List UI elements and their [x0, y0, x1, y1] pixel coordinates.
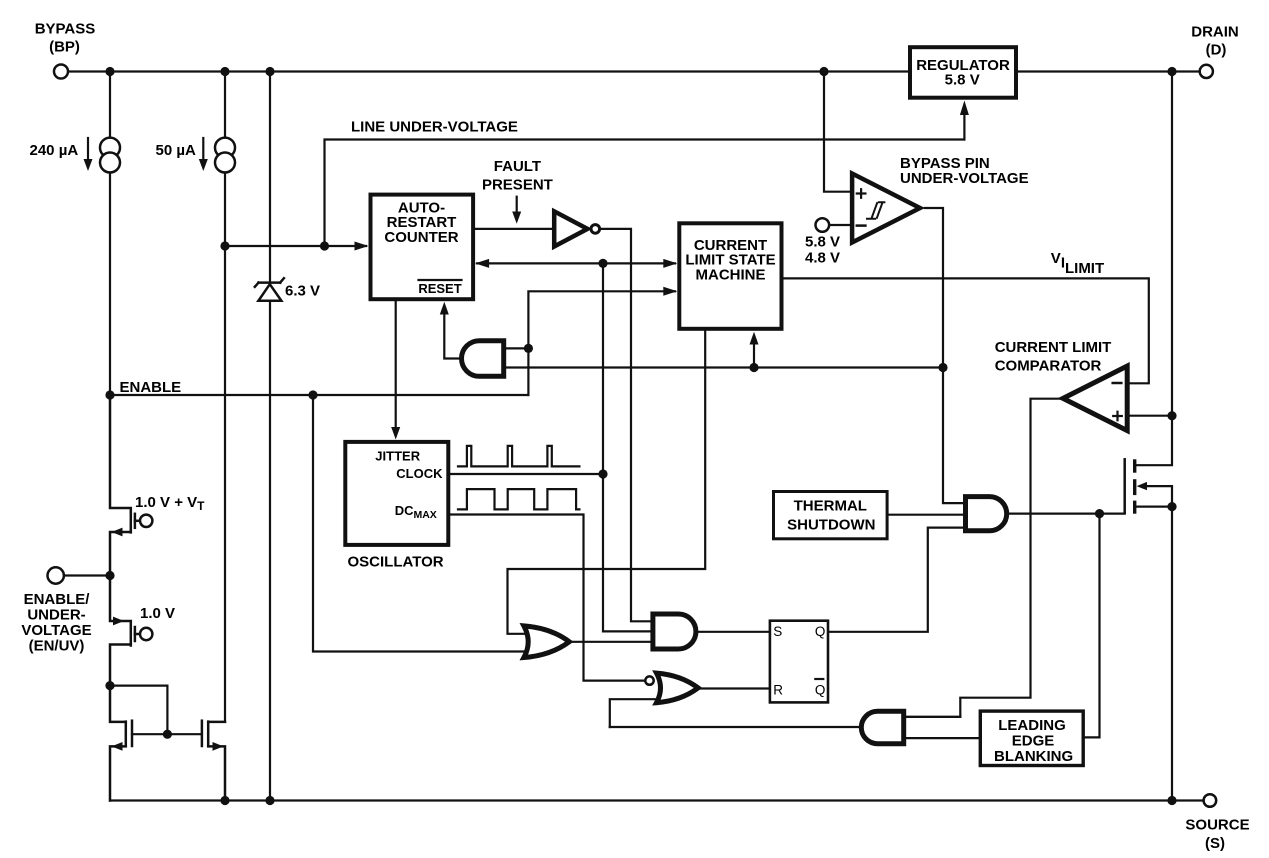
transistor Q2 (upper sense FET) — [110, 395, 152, 576]
wire: inverter output down to AND3 — [600, 229, 651, 621]
transistor Q5 (mirror right) — [202, 721, 225, 801]
node: top bus junction at 240uA branch — [105, 67, 114, 76]
BYPASS pin terminal — [54, 65, 68, 79]
wire: U7 output to latch S — [698, 631, 768, 633]
wire: bottom source bus — [110, 799, 1205, 801]
svg-text:COUNTER: COUNTER — [384, 229, 458, 246]
wire: zener branch upper segment — [269, 72, 271, 282]
svg-text:FAULT: FAULT — [494, 158, 541, 175]
node: source-body junction — [1167, 502, 1176, 511]
node: mirror gate junction — [163, 730, 172, 739]
node: junction on ARC-CLSM wire — [598, 259, 607, 268]
arrow: 50uA direction — [202, 138, 204, 162]
svg-text:PRESENT: PRESENT — [482, 177, 553, 194]
svg-text:4.8 V: 4.8 V — [805, 249, 840, 266]
svg-text:CLOCK: CLOCK — [396, 466, 443, 481]
SR latch U9 box — [770, 621, 828, 703]
U12 plus sign — [1113, 412, 1122, 421]
arrow: into CLSM left side lower — [663, 287, 677, 296]
svg-text:SOURCE: SOURCE — [1185, 817, 1249, 834]
wire: Q1 source — [1136, 506, 1172, 508]
arrow: ARC to oscillator — [395, 301, 397, 431]
wire: clock output — [450, 473, 603, 475]
svg-text:(D): (D) — [1206, 41, 1227, 58]
block U16 LEADING EDGE BLANKING box — [980, 711, 1083, 765]
node: bottom bus junction at 50uA branch — [220, 796, 229, 805]
wire: U8 output to latch R — [700, 687, 768, 689]
node: mirror feed junction — [105, 681, 114, 690]
U11 minus sign — [857, 224, 866, 227]
svg-text:THERMAL: THERMAL — [794, 498, 867, 515]
svg-text:6.3 V: 6.3 V — [285, 283, 320, 300]
wire: 50uA branch down to current mirror — [224, 173, 226, 722]
wire: line under-voltage riser into regulator — [963, 108, 965, 140]
wire: reference terminal to U11 minus input — [829, 224, 850, 226]
block U3 CURRENT LIMIT STATE MACHINE box — [679, 223, 781, 328]
wire: top bus from REGULATOR to DRAIN — [1018, 70, 1200, 72]
U12 minus sign — [1113, 382, 1122, 385]
wire: U4 upper input stub to enable net — [506, 347, 528, 349]
ENABLE/UNDER-VOLTAGE terminal — [48, 567, 64, 583]
arrow: into CLSM left side upper — [663, 259, 677, 268]
node: junction gate drive to LEB feed — [1095, 509, 1104, 518]
svg-text:50 µA: 50 µA — [156, 142, 196, 159]
Q5 source arrow — [213, 742, 224, 751]
wire: U12 output down-around to LEB AND gate — [906, 399, 1060, 717]
node: EN/UV junction — [105, 571, 114, 580]
wire: top bus to bypass comparator plus input — [824, 72, 850, 192]
svg-text:1.0 V: 1.0 V — [140, 605, 175, 622]
svg-text:RESET: RESET — [418, 281, 461, 296]
svg-text:BLANKING: BLANKING — [994, 748, 1073, 765]
zener diode VR1 6.3V — [255, 278, 284, 301]
inverter U2 triangle — [554, 211, 587, 246]
wire: line under-voltage horizontal — [325, 140, 965, 247]
DRAIN pin terminal — [1200, 65, 1213, 78]
svg-text:SHUTDOWN: SHUTDOWN — [787, 517, 875, 534]
transistor Q3 (lower sense FET) — [110, 576, 152, 686]
wire: enable branch down to OR gate — [313, 395, 526, 652]
AND gate U7 (set logic) — [653, 614, 696, 649]
Q3 source arrow — [113, 617, 124, 626]
U9 Q-bar overline — [815, 678, 823, 680]
current source I2 50uA symbol — [224, 72, 226, 138]
U1 RESET overline — [419, 279, 462, 281]
node: junction on 50uA branch — [220, 241, 229, 250]
svg-text:UNDER-: UNDER- — [27, 607, 85, 624]
block U1 AUTO-RESTART COUNTER box — [371, 195, 474, 300]
wire: Q1 drain to top bus — [1136, 72, 1172, 466]
wire: latch Q output up to AND4 — [829, 528, 963, 632]
transistor Q4 (mirror left) — [110, 686, 132, 801]
Q1 channel bar body — [1133, 479, 1136, 495]
node: junction at drain-source sense line — [1167, 411, 1176, 420]
wire: clock net vertical — [603, 263, 651, 631]
AND gate U15 (blanking, faces left) — [861, 711, 903, 743]
U11 hysteresis symbol — [866, 202, 885, 219]
svg-text:ENABLE/: ENABLE/ — [24, 591, 91, 608]
wire: 50uA node to auto-restart counter input — [225, 245, 366, 247]
arrow: fault present into wire — [516, 197, 518, 212]
wire: AND1 output to RESET input — [444, 310, 459, 359]
wire: U4 lower input from bypass UV net — [506, 366, 943, 368]
svg-text:(BP): (BP) — [49, 39, 80, 56]
wire: source down to bottom bus — [1171, 507, 1173, 801]
arrow: into ARC RESET — [440, 302, 449, 315]
wire: Q1 body to source — [1146, 486, 1172, 507]
node: enable junction at 240uA branch — [105, 390, 114, 399]
node: top bus junction at zener branch — [265, 67, 274, 76]
wire: U15 upper input stub — [906, 716, 960, 718]
wire: zener branch lower segment to bottom bus — [269, 301, 271, 801]
comparator U12 current limit triangle (faces left) — [1063, 366, 1127, 431]
power MOSFET Q1 gate electrode — [1123, 459, 1126, 513]
wire: EN/UV terminal to stack — [64, 574, 110, 576]
wire: V I-limit from CLSM to current limit comparator — [784, 278, 1149, 383]
svg-text:COMPARATOR: COMPARATOR — [995, 357, 1102, 374]
svg-text:1.0 V + VT: 1.0 V + VT — [135, 494, 205, 513]
svg-text:CURRENT LIMIT: CURRENT LIMIT — [995, 339, 1112, 356]
svg-text:LINE UNDER-VOLTAGE: LINE UNDER-VOLTAGE — [351, 119, 518, 136]
node: junction bypass UV net — [938, 363, 947, 372]
block U13 THERMAL SHUTDOWN box — [774, 492, 888, 539]
svg-text:(S): (S) — [1205, 835, 1225, 852]
wire: dcmax output — [450, 515, 645, 681]
wire: mirror gate feed — [110, 686, 167, 735]
Q4 source arrow — [112, 742, 123, 751]
wire: U15 lower input from LEB — [906, 737, 978, 739]
NOR gate U8 (reset of latch) with bubble — [645, 676, 653, 684]
wire: 240uA branch upper segment — [109, 72, 111, 138]
wire: riser into CLSM bottom — [753, 340, 755, 368]
block U5 OSCILLATOR box — [345, 442, 448, 545]
node: enable junction at OR branch — [308, 390, 317, 399]
Q2 source arrow — [112, 528, 123, 537]
wire: U12 plus input to source sense — [1130, 415, 1173, 417]
svg-text:MACHINE: MACHINE — [696, 266, 766, 283]
wire: LEB feed down — [1085, 514, 1100, 738]
wire: mirror gates tie — [132, 733, 202, 735]
block U10 REGULATOR 5.8V box — [910, 47, 1016, 97]
svg-text:(EN/UV): (EN/UV) — [29, 638, 85, 655]
U11 plus sign — [857, 189, 866, 198]
wire: U13 output to AND4 — [889, 514, 964, 516]
dcmax waveform drawing — [458, 489, 579, 509]
svg-text:VOLTAGE: VOLTAGE — [21, 622, 91, 639]
arrow: into regulator bottom — [960, 101, 969, 116]
wire: CLSM bottom to oscillator-level rail — [508, 331, 706, 634]
svg-text:OSCILLATOR: OSCILLATOR — [348, 554, 444, 571]
svg-text:S: S — [773, 624, 782, 639]
svg-text:JITTER: JITTER — [375, 448, 420, 463]
U11 reference terminal — [816, 218, 830, 232]
wire: U6 output to AND3 — [572, 641, 651, 643]
AND gate U4 (reset logic, faces left) — [462, 341, 504, 377]
svg-text:UNDER-VOLTAGE: UNDER-VOLTAGE — [900, 170, 1029, 187]
svg-text:5.8 V: 5.8 V — [945, 71, 980, 88]
wire: U15 output to U8 lower input — [610, 726, 859, 728]
inverter U2 bubble — [591, 225, 600, 234]
node: top bus junction at MOSFET drain branch — [1167, 67, 1176, 76]
node: junction at CLSM bottom feed — [749, 363, 758, 372]
svg-text:240 µA: 240 µA — [30, 142, 79, 159]
arrow: into auto-restart counter left — [355, 242, 369, 251]
Q1 channel bar drain — [1133, 459, 1136, 472]
svg-text:BYPASS: BYPASS — [35, 21, 96, 38]
wire: ARC to CLSM bidirectional — [477, 262, 675, 264]
arrow: into CLSM bottom — [750, 332, 759, 345]
wire: ARC output to inverter — [475, 228, 552, 230]
node: top bus junction at bypass comparator branch — [819, 67, 828, 76]
svg-text:LEADING: LEADING — [998, 717, 1066, 734]
arrow: 240uA direction — [87, 138, 89, 162]
svg-text:DRAIN: DRAIN — [1191, 23, 1239, 40]
node: bottom bus junction at zener branch — [265, 796, 274, 805]
wire: U8 lower input — [610, 699, 658, 727]
node: clock output junction — [598, 469, 607, 478]
comparator U11 bypass pin under-voltage triangle — [852, 174, 920, 243]
svg-text:Q: Q — [815, 683, 826, 698]
node: junction enable riser and U4 input — [524, 344, 533, 353]
arrow: into ARC right side — [475, 259, 489, 268]
node: bottom bus junction at MOSFET source — [1167, 796, 1176, 805]
wire: ENABLE horizontal — [110, 394, 528, 396]
OR gate U6 (enable OR) — [524, 626, 569, 658]
wire: 240uA branch to ENABLE node — [109, 173, 111, 396]
svg-text:5.8 V: 5.8 V — [805, 234, 840, 251]
node: junction line UV with ARC input wire — [320, 241, 329, 250]
wire: U11 output down to AND4 — [925, 208, 964, 503]
current source I1 240uA symbol — [100, 138, 120, 173]
wire: top bus from BYPASS to REGULATOR — [68, 70, 908, 72]
Q1 channel bar source — [1133, 501, 1136, 514]
svg-text:ENABLE: ENABLE — [120, 379, 182, 396]
node: top bus junction at 50uA branch — [220, 67, 229, 76]
wire: U14 output to MOSFET gate — [1009, 512, 1124, 514]
svg-text:R: R — [773, 683, 783, 698]
clock waveform drawing — [458, 446, 579, 467]
svg-text:Q: Q — [815, 624, 826, 639]
SOURCE pin terminal — [1204, 794, 1217, 807]
wire: enable riser into CLSM — [528, 291, 675, 395]
Q1 body arrow — [1137, 482, 1147, 490]
AND gate U14 (gate drive) — [966, 497, 1007, 531]
